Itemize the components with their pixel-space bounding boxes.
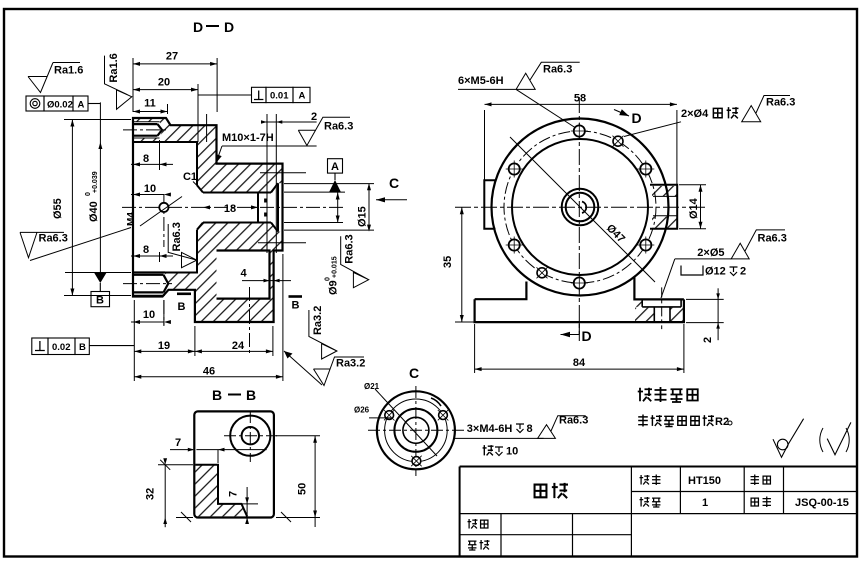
svg-text:C: C [389,175,399,191]
inner bore circle [512,139,648,275]
svg-text:Ra1.6: Ra1.6 [54,65,83,77]
perpendicularity frame 0.02 B [32,338,48,355]
2x O4 dowel pin holes [537,136,623,278]
centerlines [122,130,345,284]
dim 8 top [159,140,161,170]
svg-text:8: 8 [143,244,149,256]
concentricity frame [26,96,44,111]
dim texts D-D [52,51,369,378]
small thread arc at center [582,202,586,214]
svg-text:20: 20 [158,77,170,89]
svg-text:24: 24 [232,340,245,352]
tick marks [181,512,191,522]
datum B filled triangle [94,273,106,283]
Ra1.6 rotated (points right at part left face) [105,53,132,109]
datum A filled triangle on line [329,180,341,192]
Ra6.3 top right (on dim 2) [298,117,353,145]
箱体 [535,485,547,498]
svg-text:JSQ-00-15: JSQ-00-15 [795,497,849,509]
svg-text:10: 10 [143,309,155,321]
svg-text:2×Ø4: 2×Ø4 [681,108,709,120]
svg-text:R2: R2 [715,416,729,428]
svg-text:B: B [246,387,256,403]
svg-text:HT150: HT150 [688,475,721,487]
base outline [475,278,684,323]
dim 2 (top right) [264,121,317,123]
svg-text:Ø12: Ø12 [705,266,726,278]
datum A box [328,159,343,173]
svg-text:D: D [193,19,203,35]
dim 7 top [158,436,320,528]
centerlines [455,206,706,208]
title block texts [468,475,849,551]
svg-text:11: 11 [144,98,156,110]
svg-text:3×M4-6H: 3×M4-6H [467,423,513,435]
6xM5-6H label [458,62,580,127]
svg-text:10: 10 [144,183,156,195]
dim 7 lower [246,487,248,521]
dim 20 [197,84,199,112]
projection lines above cavity [198,112,207,142]
bolt circle (centerline) [504,131,656,283]
projection lines through boss [267,114,276,253]
svg-text:Ra3.2: Ra3.2 [312,306,324,335]
svg-text:Ra6.3: Ra6.3 [39,233,68,245]
svg-text:Ø40: Ø40 [88,201,100,222]
2xO5 label [661,230,787,298]
bore outline [203,183,278,231]
svg-text:Ø55: Ø55 [52,198,64,219]
svg-text:Ø21: Ø21 [364,382,380,391]
svg-text:B: B [96,295,104,307]
dim 8 bottom [159,252,161,262]
dim 46 [282,254,284,381]
dim 35 [461,207,463,322]
svg-text:Ra6.3: Ra6.3 [766,97,795,109]
svg-text:Ra6.3: Ra6.3 [344,234,356,263]
svg-text:Ø0.02: Ø0.02 [47,99,73,110]
Ra6.3 rotated right of part [341,234,369,287]
svg-text:2: 2 [702,337,714,343]
Ra6.3 left mid [20,228,131,261]
制图 [468,519,478,528]
extension lines right of face [258,173,306,243]
dia9 [284,222,343,224]
svg-text:Ra1.6: Ra1.6 [108,53,120,82]
B-B cutting plane marks [177,294,302,313]
svg-text:Ø26: Ø26 [354,406,370,415]
svg-text:+0.015: +0.015 [332,256,339,278]
45 deg diagonal centerline [510,137,655,282]
svg-text:8: 8 [143,153,149,165]
svg-text:32: 32 [145,488,157,500]
3xM4 leader [455,437,544,439]
svg-text:C1: C1 [183,171,197,183]
title block grid [460,467,857,557]
Ra1.6 top left [28,63,80,93]
hatched L-section [195,465,247,517]
dim 50 [276,435,320,437]
svg-text:Ra6.3: Ra6.3 [758,233,787,245]
perpendicularity frame 0.01 A [252,87,267,102]
housing section hatch [133,118,283,322]
svg-text:Ra3.2: Ra3.2 [336,358,365,370]
dim 4 (wall) [242,280,291,282]
dia55 [64,119,131,121]
bottom threaded hole M5 [133,275,168,293]
top threaded hole M5 [133,124,162,136]
body outline [194,411,274,517]
dim 84 [474,324,476,373]
dim 10 top [131,194,164,196]
dia40 [99,102,101,272]
global surface symbols [773,419,851,458]
svg-text:8: 8 [527,423,533,435]
dim O14 [679,184,706,186]
材料 [640,475,650,484]
M10 thread tick marks [264,199,266,217]
line under datum A to part [284,191,345,193]
svg-text:0.01: 0.01 [270,91,289,102]
svg-text:4: 4 [240,268,247,280]
svg-text:1: 1 [702,497,708,509]
svg-text:0: 0 [85,192,92,196]
left tab [484,180,495,229]
right tab with local section [650,185,677,229]
svg-text:35: 35 [442,256,454,268]
数量 [640,497,650,506]
dim 10 bottom [131,321,164,323]
dim 11 [167,104,169,114]
center hub circles [562,189,599,226]
svg-text:18: 18 [224,203,236,215]
2xO4 label [624,96,795,137]
housing outline [133,118,283,322]
svg-text:B: B [178,301,186,313]
svg-text:Ra6.3: Ra6.3 [324,121,353,133]
dim 19 / 24 [133,300,135,381]
svg-text:6×M5-6H: 6×M5-6H [458,75,504,87]
svg-text:Ra6.3: Ra6.3 [559,415,588,427]
svg-text:D: D [632,110,642,126]
leaders [375,389,437,456]
svg-text:7: 7 [228,491,240,497]
datum B box [91,292,110,307]
dims of front view [455,104,724,373]
svg-text:46: 46 [203,366,215,378]
svg-text:58: 58 [574,93,586,105]
svg-text:C: C [409,365,419,381]
svg-text:Ø14: Ø14 [688,197,700,219]
svg-text:Ø15: Ø15 [357,206,369,227]
dim 27 [132,58,134,112]
图号 [751,498,758,506]
svg-text:2: 2 [740,266,746,278]
svg-text:B: B [79,342,86,353]
centerlines [224,435,277,437]
svg-text:M10×1-7H: M10×1-7H [222,132,274,144]
M4 side hole [159,203,168,212]
比例 [751,475,759,486]
dia15 [284,183,374,185]
审核 [468,541,476,550]
Ra3.2 with leader at bottom right of part [284,351,365,386]
dim 58 [485,103,677,105]
svg-text:7: 7 [175,437,181,449]
svg-text:2×Ø5: 2×Ø5 [697,247,724,259]
svg-text:10: 10 [506,446,518,458]
D section arrows [561,109,642,344]
svg-text:27: 27 [166,51,178,63]
svg-text:Ra6.3: Ra6.3 [543,64,572,76]
cavity outline [134,142,197,273]
base pad local section with O5 hole and O12 counterbore [635,287,684,329]
svg-text:A: A [331,161,339,173]
hole boss circles [230,416,270,456]
svg-text:D: D [224,19,234,35]
svg-text:19: 19 [158,340,170,352]
technical requirements text [638,388,652,402]
dim 32 [158,464,193,466]
svg-text:2: 2 [311,111,317,123]
svg-text:D: D [582,328,592,344]
inner slot (4mm wall recess) [217,251,270,299]
housing outer circle [492,119,669,296]
C view arrow (right of D-D) [376,175,407,202]
svg-text:50: 50 [297,483,309,495]
svg-text:0.02: 0.02 [52,342,71,353]
Ra3.2 rotated [309,306,337,359]
svg-text:Ø9: Ø9 [328,280,340,295]
6x M5-6H tapped holes on bolt circle [509,125,652,288]
svg-text:A: A [299,91,306,102]
svg-text:B: B [212,387,222,403]
svg-text:0: 0 [325,277,332,281]
svg-text:+0.039: +0.039 [92,171,99,193]
svg-text:B: B [292,300,300,312]
3 holes [385,411,448,466]
svg-text:Ra6.3: Ra6.3 [171,222,183,251]
dim arrows D-D [70,62,371,379]
svg-text:84: 84 [573,357,586,369]
svg-text:A: A [78,99,85,110]
svg-text:M4: M4 [126,212,137,226]
chamfer C1 edges [197,185,203,230]
dim 2 right [686,298,724,300]
Ra6.3 rotated inside cavity [168,222,197,268]
